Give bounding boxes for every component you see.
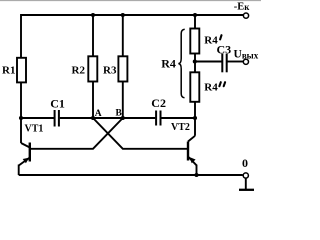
svg-text:R4: R4 [204, 82, 218, 94]
wire bottom rail [19, 174, 243, 176]
wire R4'' bottom to VT2 collector node [194, 102, 196, 118]
junction R4 top [193, 13, 197, 17]
wire R1 bottom to VT1 collector node [20, 83, 22, 118]
wire R4' to R4'' [194, 54, 196, 73]
junction VT2 collector node [193, 116, 197, 120]
svg-text:0: 0 [242, 156, 248, 170]
svg-text:R1: R1 [2, 64, 15, 76]
wire R4 midpoint to C3 [195, 61, 222, 63]
svg-text:VT1: VT1 [25, 124, 44, 135]
wire R2 top lead [92, 15, 94, 56]
wire collector VT1 to C1 [21, 117, 54, 119]
svg-text:-Eк: -Eк [234, 1, 251, 12]
node A [91, 109, 102, 120]
resistor R1 [2, 58, 26, 83]
wire node A to node B [93, 117, 123, 119]
wire R3 bottom to node B [122, 82, 124, 118]
brace R4 grouping R4' and R4'' [161, 29, 185, 98]
transistor VT1 [19, 117, 44, 175]
capacitor C3 [217, 43, 232, 73]
resistor R3 [103, 56, 127, 81]
wire C1 to node A [60, 117, 93, 119]
resistor R2 [72, 56, 98, 81]
junction VT2 emitter on bottom rail [194, 173, 198, 177]
resistor R4' [190, 29, 221, 54]
resistor R4'' [190, 72, 225, 102]
terminal -Ek [234, 1, 251, 18]
wire R3 top lead [122, 15, 124, 56]
wire R4 branch top lead [194, 15, 196, 29]
svg-text:Uвых: Uвых [234, 49, 259, 61]
svg-text:R4: R4 [161, 57, 176, 71]
wire node B to C2 [123, 117, 156, 119]
svg-text:C1: C1 [50, 97, 65, 111]
junction VT1 collector node [19, 116, 23, 120]
wire cross-coupling node A to VT2 base [93, 118, 188, 149]
node B [116, 109, 125, 121]
transistor VT2 [171, 117, 197, 175]
svg-text:C3: C3 [217, 43, 232, 57]
junction R2 top [91, 13, 95, 17]
svg-text:B: B [116, 109, 123, 119]
wire C3 to Uvyh terminal [228, 61, 244, 63]
junction R3 top [121, 13, 125, 17]
capacitor C2 [151, 96, 166, 126]
wire top rail from R1 to -Ek terminal [21, 14, 244, 16]
terminal Uvyh output [234, 49, 259, 65]
capacitor C1 [50, 97, 65, 127]
terminal 0 [242, 156, 248, 178]
svg-text:VT2: VT2 [171, 122, 190, 133]
wire cross-coupling node B to VT1 base [30, 118, 123, 149]
wire left branch upper (top rail to R1) [20, 14, 22, 57]
svg-text:C2: C2 [151, 96, 166, 110]
wire C2 to VT2 collector node [161, 117, 195, 119]
svg-text:R2: R2 [72, 65, 86, 77]
wire R2 bottom to node A [92, 82, 94, 118]
ground [239, 178, 254, 190]
junction R4 midpoint [193, 59, 197, 63]
svg-text:R3: R3 [103, 65, 117, 77]
